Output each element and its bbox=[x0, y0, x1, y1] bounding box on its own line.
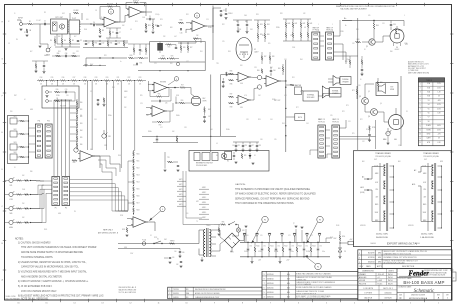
svg-text:VR5: VR5 bbox=[108, 136, 111, 138]
svg-text:10K: 10K bbox=[40, 84, 42, 86]
wire y142 bbox=[153, 142, 198, 144]
svg-text:10K: 10K bbox=[84, 84, 86, 86]
svg-text:R34: R34 bbox=[267, 24, 270, 26]
wires center opamps bbox=[249, 76, 257, 79]
svg-text:C42: C42 bbox=[258, 95, 261, 97]
row under input bbox=[52, 55, 80, 57]
svg-text:TOUCHING INTERNAL PARTS.: TOUCHING INTERNAL PARTS. bbox=[21, 256, 54, 259]
wires mid-left row bbox=[83, 40, 128, 42]
svg-text:C29: C29 bbox=[290, 35, 293, 37]
svg-text:C46: C46 bbox=[146, 115, 149, 117]
cap C30 bbox=[390, 24, 392, 26]
svg-text:R90: R90 bbox=[80, 102, 83, 104]
svg-text:K1: K1 bbox=[227, 161, 229, 163]
svg-text:R46: R46 bbox=[230, 84, 233, 86]
resistor R60 bbox=[373, 23, 375, 29]
svg-text:V1: V1 bbox=[254, 49, 256, 51]
designator circle U1 bbox=[108, 9, 113, 14]
svg-text:037352-SCH REV-A: 037352-SCH REV-A bbox=[409, 297, 428, 300]
svg-text:C25: C25 bbox=[222, 41, 225, 43]
right border tab bbox=[452, 272, 457, 281]
comb wire 3 bbox=[106, 81, 108, 150]
resistor R4 bbox=[61, 39, 63, 44]
relay box right bbox=[225, 151, 232, 159]
transistor Q4 bbox=[371, 109, 378, 116]
svg-text:300V: 300V bbox=[375, 212, 379, 214]
svg-text:V7: V7 bbox=[428, 117, 430, 119]
svg-text:LDR: LDR bbox=[62, 13, 65, 15]
junction circle b bbox=[257, 85, 261, 89]
svg-text:R110: R110 bbox=[137, 154, 140, 156]
svg-text:R23: R23 bbox=[160, 19, 163, 21]
svg-text:R59: R59 bbox=[181, 100, 184, 102]
svg-text:V5: V5 bbox=[428, 108, 430, 110]
svg-text:10K: 10K bbox=[172, 131, 174, 133]
svg-text:C9 47p: C9 47p bbox=[155, 14, 160, 16]
svg-text:SW1: SW1 bbox=[14, 116, 17, 118]
svg-text:BH-100 BASS AMP: BH-100 BASS AMP bbox=[403, 280, 444, 285]
svg-text:R66: R66 bbox=[390, 51, 393, 53]
resistor R56 feedback bbox=[156, 96, 162, 98]
svg-text:C48: C48 bbox=[210, 129, 213, 131]
power transformer T3 core bbox=[206, 228, 208, 257]
comb wire 7 bbox=[147, 81, 149, 91]
svg-text:C49: C49 bbox=[232, 145, 235, 147]
svg-text:OPTO FET: OPTO FET bbox=[55, 17, 63, 19]
ground g2 bbox=[39, 45, 42, 47]
svg-text:INCH: INCH bbox=[388, 283, 393, 285]
wires U8B bbox=[146, 107, 152, 109]
svg-text:YEL: YEL bbox=[375, 189, 378, 191]
parts below resistor cols bbox=[261, 56, 263, 60]
svg-text:C52: C52 bbox=[362, 141, 365, 143]
cluster under pot bbox=[35, 64, 37, 68]
svg-text:R74: R74 bbox=[366, 129, 369, 131]
svg-text:R60: R60 bbox=[376, 25, 379, 27]
svg-text:R101: R101 bbox=[44, 229, 47, 231]
svg-text:R18: R18 bbox=[84, 77, 87, 79]
svg-text:.001: .001 bbox=[230, 13, 233, 15]
svg-text:V6: V6 bbox=[428, 113, 430, 115]
op-amp U8B reverb return bbox=[152, 106, 165, 117]
svg-text:THAT CONTAINED IN THE OPERATI: THAT CONTAINED IN THE OPERATING INSTRUCT… bbox=[235, 202, 295, 205]
tone ladder bbox=[76, 99, 78, 101]
svg-text:R32: R32 bbox=[170, 63, 173, 65]
svg-text:@ TUBE IDLE: @ TUBE IDLE bbox=[408, 70, 418, 72]
ground stub bbox=[164, 169, 167, 171]
wire bus y58 bbox=[86, 57, 127, 59]
svg-text:P12: P12 bbox=[47, 120, 50, 122]
svg-text:10K: 10K bbox=[73, 84, 75, 86]
svg-text:V4: V4 bbox=[428, 104, 430, 106]
bridge diodes in box bbox=[222, 154, 226, 158]
svg-text:REV: REV bbox=[203, 98, 206, 100]
callout circle F4 bbox=[315, 263, 321, 269]
svg-text:DRVR: DRVR bbox=[203, 100, 207, 102]
svg-text:R13: R13 bbox=[135, 21, 138, 23]
resistor R130 bbox=[170, 243, 175, 245]
op-amp U1B bbox=[129, 7, 142, 18]
connector P8 bbox=[326, 32, 334, 60]
wires U2A bbox=[186, 22, 192, 24]
cluster below row bbox=[97, 99, 99, 101]
svg-text:BLK: BLK bbox=[362, 161, 365, 163]
switch cell 2 bbox=[10, 131, 17, 137]
svg-text:+15: +15 bbox=[100, 17, 103, 19]
svg-text:C16: C16 bbox=[180, 32, 183, 34]
svg-text:P/N 04-251 (02)-NA: P/N 04-251 (02)-NA bbox=[424, 155, 440, 158]
svg-text:GRN: GRN bbox=[423, 173, 426, 175]
IC box U11 bbox=[69, 20, 80, 34]
svg-text:8: 8 bbox=[264, 278, 265, 280]
svg-text:10K: 10K bbox=[51, 84, 53, 86]
svg-text:R100: R100 bbox=[118, 155, 121, 157]
svg-text:R30: R30 bbox=[180, 20, 183, 22]
svg-text:R94: R94 bbox=[80, 130, 83, 132]
power tube V4 bbox=[390, 29, 404, 43]
svg-text:RETAINED SYM AL CKT WITH SKELE: RETAINED SYM AL CKT WITH SKELETON bbox=[384, 256, 418, 259]
svg-text:3: 3 bbox=[169, 289, 170, 291]
svg-text:.033: .033 bbox=[284, 95, 287, 97]
svg-text:R144: R144 bbox=[312, 246, 315, 248]
svg-text:C2: C2 bbox=[80, 40, 82, 42]
export wiring box outline bbox=[353, 151, 451, 247]
svg-text:C24: C24 bbox=[94, 119, 97, 121]
svg-text:Q4: Q4 bbox=[380, 103, 382, 105]
wire y65 segment bbox=[83, 64, 106, 66]
svg-text:W/ CHG R/L R-P-CON LIST: W/ CHG R/L R-P-CON LIST bbox=[384, 263, 405, 265]
svg-text:C71: C71 bbox=[263, 246, 266, 248]
svg-text:+41V: +41V bbox=[286, 260, 289, 262]
wire B+ rail bbox=[342, 20, 404, 22]
wires U8A in bbox=[148, 83, 154, 85]
svg-text:U4: U4 bbox=[270, 75, 272, 77]
svg-text:R3: R3 bbox=[44, 12, 46, 14]
svg-text:C50: C50 bbox=[358, 85, 361, 87]
svg-text:R62: R62 bbox=[208, 109, 211, 111]
svg-text:MG: MG bbox=[378, 257, 382, 259]
svg-text:.68: .68 bbox=[304, 27, 306, 29]
svg-text:WILL SET THE OUTPUT: WILL SET THE OUTPUT bbox=[408, 68, 426, 70]
svg-text:TP1: TP1 bbox=[167, 157, 170, 159]
svg-text:LOW: LOW bbox=[9, 199, 13, 201]
svg-text:4: 4 bbox=[176, 79, 177, 81]
svg-text:C19: C19 bbox=[76, 51, 79, 53]
reverb driver T4 bbox=[191, 96, 201, 106]
svg-text:.01: .01 bbox=[216, 143, 218, 145]
svg-text:9: 9 bbox=[264, 274, 265, 276]
svg-text:R73: R73 bbox=[346, 105, 349, 107]
svg-text:DESCRIPTION: DESCRIPTION bbox=[402, 266, 415, 268]
resistor R2 bbox=[26, 29, 28, 33]
node A bbox=[174, 87, 176, 89]
svg-text:.047: .047 bbox=[174, 36, 177, 38]
svg-text:5: 5 bbox=[162, 209, 163, 211]
resistor R50 bbox=[282, 67, 284, 72]
svg-text:C31: C31 bbox=[382, 23, 385, 25]
test point TP1 bbox=[164, 152, 166, 162]
svg-text:037352S: 037352S bbox=[384, 297, 392, 299]
svg-text:C8: C8 bbox=[95, 10, 97, 12]
svg-text:03/21/00: 03/21/00 bbox=[267, 283, 274, 285]
svg-text:FX LOOP: FX LOOP bbox=[60, 105, 66, 107]
svg-text:250K: 250K bbox=[22, 189, 25, 191]
svg-text:VOL: VOL bbox=[9, 185, 12, 187]
fx cap Ca bbox=[65, 91, 67, 93]
svg-text:T4A 250VAC MAX REPLACEMENT: T4A 250VAC MAX REPLACEMENT bbox=[340, 7, 367, 10]
svg-text:C9B: C9B bbox=[65, 53, 68, 55]
svg-text:C70: C70 bbox=[249, 246, 252, 248]
svg-text:455V: 455V bbox=[437, 129, 441, 131]
svg-text:C55: C55 bbox=[330, 115, 333, 117]
svg-text:C30: C30 bbox=[393, 24, 396, 26]
svg-text:R11: R11 bbox=[148, 25, 151, 27]
svg-text:WHT: WHT bbox=[424, 159, 427, 161]
svg-text:6L6GC: 6L6GC bbox=[395, 49, 399, 51]
pot MID bbox=[9, 206, 13, 210]
svg-text:C27: C27 bbox=[160, 127, 163, 129]
svg-text:R114: R114 bbox=[137, 182, 140, 184]
svg-text:R7 220K: R7 220K bbox=[107, 4, 113, 6]
svg-text:22K: 22K bbox=[124, 107, 126, 109]
svg-text:3) VOLTAGES ARE MEASURED WITH: 3) VOLTAGES ARE MEASURED WITH 7 MEGOHM I… bbox=[18, 271, 87, 274]
power tube V5 bbox=[389, 115, 404, 130]
wires r9c7 bbox=[109, 28, 111, 31]
wires from connectors bbox=[320, 35, 324, 37]
svg-text:Q3: Q3 bbox=[359, 96, 361, 98]
svg-text:P10: P10 bbox=[10, 111, 13, 113]
svg-text:R9C: R9C bbox=[73, 53, 76, 55]
svg-text:.XX=.02: .XX=.02 bbox=[378, 274, 384, 276]
svg-text:R40: R40 bbox=[288, 23, 291, 25]
resistor R61 bbox=[395, 29, 397, 34]
svg-text:C35: C35 bbox=[274, 139, 277, 141]
svg-text:C23: C23 bbox=[140, 103, 143, 105]
svg-text:C9: C9 bbox=[88, 43, 90, 45]
svg-text:R19: R19 bbox=[186, 14, 189, 16]
svg-text:R115: R115 bbox=[137, 189, 140, 191]
svg-text:Q1: Q1 bbox=[366, 46, 368, 48]
res in box bbox=[241, 154, 243, 159]
resistor R49 bbox=[261, 69, 263, 74]
filter capacitors bank bbox=[247, 248, 249, 250]
supply top rail bbox=[240, 241, 330, 243]
ground right of box bbox=[235, 161, 238, 163]
long vertical wire x213 bbox=[212, 8, 214, 33]
svg-text:6K8: 6K8 bbox=[170, 27, 173, 29]
svg-text:R49: R49 bbox=[257, 70, 260, 72]
svg-text:C54: C54 bbox=[306, 123, 309, 125]
long wire x213 upper bbox=[212, 6, 214, 61]
svg-text:470p: 470p bbox=[346, 59, 349, 61]
svg-text:# OF REV: # OF REV bbox=[364, 292, 373, 294]
svg-text:220K: 220K bbox=[292, 47, 295, 49]
svg-text:J2: J2 bbox=[8, 21, 10, 23]
svg-text:1K5: 1K5 bbox=[268, 43, 271, 45]
op-amp U3B bbox=[238, 95, 249, 104]
svg-text:120V: 120V bbox=[130, 253, 133, 255]
svg-text:R41: R41 bbox=[200, 51, 203, 53]
svg-text:GRN 1: GRN 1 bbox=[202, 187, 206, 189]
svg-text:R41: R41 bbox=[295, 23, 298, 25]
resistor R57 bbox=[180, 87, 186, 89]
wires conn to ladder bbox=[70, 180, 128, 212]
svg-text:C60: C60 bbox=[182, 252, 185, 254]
svg-text:R91: R91 bbox=[80, 109, 83, 111]
resistor R21 bbox=[139, 57, 144, 59]
svg-text:BR1: BR1 bbox=[230, 251, 233, 253]
op-amp output bends bbox=[93, 156, 120, 172]
svg-text:V2B: V2B bbox=[427, 96, 430, 98]
svg-text:R45: R45 bbox=[230, 71, 233, 73]
svg-text:P2 PLUG: P2 PLUG bbox=[318, 122, 325, 124]
svg-text:WHT 6: WHT 6 bbox=[179, 204, 184, 206]
callout circle F3 bbox=[317, 216, 323, 222]
comb wire 5 bbox=[120, 81, 122, 168]
svg-text:C6: C6 bbox=[160, 25, 162, 27]
svg-text:R25: R25 bbox=[168, 47, 171, 49]
svg-text:NOTES:: NOTES: bbox=[15, 239, 24, 241]
svg-text:470: 470 bbox=[368, 15, 370, 17]
svg-text:R14: R14 bbox=[40, 77, 43, 79]
svg-text:BRN: BRN bbox=[423, 220, 426, 222]
long wire x357 bbox=[357, 18, 359, 150]
svg-text:04/11/00: 04/11/00 bbox=[267, 288, 274, 290]
svg-text:R76: R76 bbox=[386, 133, 389, 135]
svg-text:R27: R27 bbox=[190, 47, 193, 49]
svg-text:1M5: 1M5 bbox=[250, 29, 253, 31]
svg-text:SEND: SEND bbox=[124, 91, 128, 93]
svg-text:C72: C72 bbox=[277, 246, 280, 248]
svg-text:C1: C1 bbox=[44, 21, 46, 23]
wires power right bbox=[365, 104, 371, 112]
transformer T1 (220V) symbol bbox=[379, 163, 381, 231]
switch cell 4 bbox=[10, 154, 17, 160]
svg-text:EXPORT WIRING (NLT A): EXPORT WIRING (NLT A) bbox=[387, 242, 417, 246]
svg-text:R96: R96 bbox=[80, 144, 83, 146]
svg-text:R15: R15 bbox=[95, 43, 98, 45]
svg-text:R6: R6 bbox=[50, 40, 52, 42]
resistor R12 bbox=[152, 24, 154, 29]
svg-text:47K: 47K bbox=[303, 13, 305, 15]
resistor R46 bbox=[229, 79, 234, 81]
connector P5 bbox=[52, 177, 60, 206]
svg-text:U7B: U7B bbox=[142, 221, 145, 223]
svg-text:C26: C26 bbox=[66, 95, 69, 97]
svg-text:R44: R44 bbox=[300, 59, 303, 61]
svg-text:F2: F2 bbox=[264, 220, 266, 222]
svg-text:C47: C47 bbox=[208, 116, 211, 118]
wires stage3 bbox=[134, 57, 138, 59]
mixing resistor row bbox=[38, 80, 44, 82]
res hang 1 bbox=[176, 138, 178, 142]
transistor Q1 driver bbox=[369, 39, 375, 45]
svg-text:10K: 10K bbox=[95, 84, 97, 86]
svg-text:JXXX ON CHASSIS MOUNT ONLY.: JXXX ON CHASSIS MOUNT ONLY. bbox=[21, 290, 57, 293]
vertical bus wires bbox=[53, 100, 55, 176]
input jack J1 bbox=[20, 23, 23, 26]
resistor R47 bbox=[229, 96, 234, 98]
svg-text:R15: R15 bbox=[51, 77, 54, 79]
svg-text:D10: D10 bbox=[246, 235, 249, 237]
fx jack 2 bbox=[46, 100, 49, 103]
speaker LS1 top bbox=[333, 76, 340, 86]
svg-text:R28: R28 bbox=[162, 55, 165, 57]
speaker jack box bbox=[376, 83, 398, 96]
svg-text:1K8: 1K8 bbox=[240, 65, 243, 67]
cap C5 bbox=[149, 18, 151, 20]
svg-text:10K: 10K bbox=[62, 84, 64, 86]
cap C40 bbox=[270, 70, 272, 72]
svg-text:AND BE SURE POWER SUPPLY IS DI: AND BE SURE POWER SUPPLY IS DISCHARGED B… bbox=[21, 251, 83, 254]
svg-text:RET: RET bbox=[14, 95, 17, 97]
svg-text:0V: 0V bbox=[438, 96, 440, 98]
svg-text:R5: R5 bbox=[72, 40, 74, 42]
svg-text:WHT 1: WHT 1 bbox=[179, 179, 184, 181]
cap C12 bbox=[136, 63, 138, 65]
svg-text:C3: C3 bbox=[8, 43, 10, 45]
svg-text:V1B: V1B bbox=[427, 87, 430, 89]
svg-text:K1: K1 bbox=[254, 155, 256, 157]
svg-text:C61: C61 bbox=[172, 257, 175, 259]
svg-text:R85: R85 bbox=[222, 221, 225, 223]
svg-text:6: 6 bbox=[264, 288, 265, 290]
svg-text:R80: R80 bbox=[30, 171, 33, 173]
fx jack 1 bbox=[46, 91, 49, 94]
resistor R9a bbox=[109, 31, 111, 35]
svg-text:Schematic: Schematic bbox=[414, 289, 435, 294]
svg-text:GRN 3: GRN 3 bbox=[202, 197, 206, 199]
svg-text:100u: 100u bbox=[322, 251, 325, 253]
svg-text:DIMENSIONS: DIMENSIONS bbox=[362, 271, 374, 273]
title block zone dividers bbox=[397, 276, 452, 278]
svg-text:4: 4 bbox=[264, 297, 265, 299]
svg-text:C10: C10 bbox=[102, 43, 105, 45]
svg-text:210V: 210V bbox=[437, 87, 441, 89]
svg-text:10K: 10K bbox=[106, 84, 108, 86]
wires above loop bbox=[178, 42, 196, 44]
svg-text:7: 7 bbox=[264, 283, 265, 285]
svg-text:R54: R54 bbox=[282, 123, 285, 125]
svg-text:C36: C36 bbox=[260, 139, 263, 141]
svg-text:SHT: SHT bbox=[446, 294, 449, 296]
resistor R99 bbox=[72, 160, 77, 162]
svg-text:AND A MODERN DIGITAL VOLTMETER: AND A MODERN DIGITAL VOLTMETER. bbox=[21, 275, 63, 278]
svg-text:+16V: +16V bbox=[333, 238, 336, 240]
cap C6 bbox=[157, 25, 159, 27]
fx resistor Rb bbox=[55, 100, 60, 102]
svg-text:U3B: U3B bbox=[240, 107, 243, 109]
svg-text:2: 2 bbox=[169, 293, 170, 295]
svg-text:415V: 415V bbox=[437, 108, 441, 110]
wires tubes area bbox=[375, 36, 386, 42]
svg-text:P3 PLUG: P3 PLUG bbox=[332, 122, 339, 124]
svg-text:4K7: 4K7 bbox=[74, 36, 77, 38]
svg-text:DATE: DATE bbox=[366, 265, 371, 268]
transformer T2 primary leads bbox=[418, 167, 431, 173]
svg-text:ANGLES: ANGLES bbox=[359, 276, 367, 279]
cap C1 bbox=[44, 23, 46, 25]
svg-text:R113: R113 bbox=[137, 175, 140, 177]
svg-text:MG: MG bbox=[378, 262, 382, 264]
connector P7 bbox=[312, 32, 320, 60]
svg-text:R30: R30 bbox=[56, 89, 59, 91]
long wire x220 bbox=[220, 75, 222, 137]
svg-text:C35: C35 bbox=[237, 145, 240, 147]
svg-text:HIGH: HIGH bbox=[9, 227, 13, 229]
supply ground stubs bbox=[295, 225, 298, 227]
svg-text:C33: C33 bbox=[254, 67, 257, 69]
